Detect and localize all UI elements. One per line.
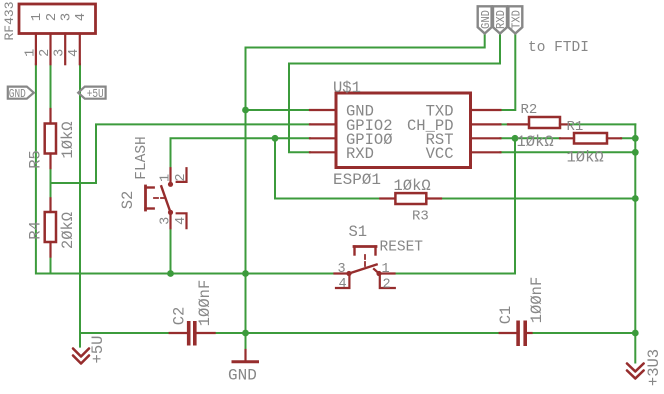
switch S1 RESET (335, 247, 395, 289)
svg-text:1: 1 (382, 262, 390, 277)
svg-text:1ØØnF: 1ØØnF (196, 280, 214, 327)
svg-text:RXD: RXD (346, 145, 374, 163)
wire bottom row C2 to C1 (215, 332, 500, 334)
wire R4 bottom to GND row (50, 257, 52, 274)
svg-text:C2: C2 (171, 307, 189, 326)
svg-text:FLASH: FLASH (134, 136, 150, 180)
flag GND left (8, 87, 34, 99)
svg-text:S1: S1 (349, 223, 368, 241)
resistor R5 (45, 109, 56, 168)
wire +3V3 rail vertical (634, 124, 636, 362)
flag +5V left (78, 87, 105, 99)
resistor R3 (380, 193, 441, 204)
wire R1 right to rail (621, 137, 635, 139)
svg-text:R2: R2 (521, 102, 538, 118)
svg-text:RESET: RESET (380, 240, 424, 256)
wire net TXD from top flag to ESP TXD pin (500, 34, 515, 111)
wire R2 right to +3V3 rail (569, 123, 636, 125)
svg-text:1ØkΩ: 1ØkΩ (517, 133, 554, 151)
wire RF433 pin4 +5V column down to +5V arrow (79, 64, 81, 346)
svg-text:TXD: TXD (510, 10, 523, 29)
svg-text:+5U: +5U (87, 87, 104, 101)
svg-text:2: 2 (38, 49, 53, 57)
resistor R4 (45, 198, 56, 256)
svg-text:+3U3: +3U3 (645, 349, 663, 386)
wire GPIO0 drop down to R3 row (275, 138, 380, 198)
svg-text:1: 1 (29, 13, 45, 21)
svg-text:4: 4 (174, 217, 189, 225)
flag GND top (to FTDI) (478, 6, 492, 33)
wire RF433 pin1 column down to bottom GND row (36, 64, 335, 273)
svg-text:R4: R4 (27, 221, 45, 240)
svg-text:to FTDI: to FTDI (528, 40, 589, 56)
svg-text:1ØkΩ: 1ØkΩ (59, 121, 77, 158)
capacitor C2 (170, 321, 215, 346)
junction RST net at drop (512, 135, 519, 142)
svg-text:U$1: U$1 (333, 79, 361, 97)
svg-text:2ØkΩ: 2ØkΩ (59, 212, 77, 249)
svg-text:1ØØnF: 1ØØnF (528, 277, 546, 324)
junction R3 row at rail (632, 195, 639, 202)
svg-text:GND: GND (228, 367, 257, 385)
wire net RXD from top flag to ESP RXD pin (289, 34, 500, 153)
svg-text:1: 1 (23, 49, 38, 57)
svg-text:1: 1 (159, 174, 174, 182)
junction GND vertical at GND row (242, 270, 249, 277)
junction bottom row at GND vertical (242, 330, 249, 337)
flag RXD top (493, 6, 507, 33)
wire VCC row to rail (500, 151, 635, 153)
junction VCC at rail (632, 149, 639, 156)
svg-text:3: 3 (159, 217, 174, 225)
svg-text:1ØkΩ: 1ØkΩ (394, 177, 431, 195)
junction GPIO0 net at R3 drop (272, 135, 279, 142)
svg-text:+5U: +5U (89, 336, 107, 364)
svg-text:3: 3 (59, 13, 75, 21)
svg-text:ESPØ1: ESPØ1 (333, 171, 381, 189)
flag TXD top (508, 6, 522, 33)
svg-text:RXD: RXD (495, 10, 508, 29)
svg-text:GND: GND (480, 10, 493, 29)
ground symbol GND (233, 350, 258, 362)
wire CH_PD short to R2 (500, 123, 508, 125)
svg-text:GND: GND (9, 87, 26, 101)
svg-text:4: 4 (67, 49, 82, 57)
wire GPIO0 net from S2 to ESP GPIO0 pin (171, 138, 311, 168)
resistor R1 (560, 133, 621, 144)
switch S2 FLASH (146, 168, 187, 228)
svg-text:R1: R1 (567, 119, 584, 135)
wire GND branch to ESP GND pin (246, 109, 311, 111)
svg-text:RF433: RF433 (2, 1, 17, 40)
svg-text:2: 2 (44, 13, 60, 21)
wire GPIO2 net from divider tap to ESP GPIO2 pin (51, 124, 311, 183)
svg-text:S2: S2 (119, 191, 137, 210)
junction S2 pin3 at GND row (167, 270, 174, 277)
wire RF433 pin2 to R5 top (50, 64, 52, 109)
wire R3 right to rail (441, 198, 635, 200)
wire S1 pin1 to RST drop (395, 138, 516, 273)
wire +5V bottom row from corner to C2 (80, 332, 170, 334)
svg-text:R5: R5 (27, 150, 45, 169)
junction GND at ESP GND row (242, 107, 249, 114)
junction R1 at rail (632, 135, 639, 142)
capacitor C1 (500, 321, 532, 347)
svg-text:2: 2 (383, 278, 391, 293)
wire RST row ESP to R1 (500, 137, 560, 139)
svg-text:4: 4 (339, 277, 347, 292)
IC U$1 ESP01 (310, 93, 500, 168)
connector RF433 (19, 4, 96, 64)
resistor R2 (508, 117, 569, 128)
wire GND row from GND vertical to S1 pin3 (246, 273, 335, 275)
wire S2 pin3 down to GND row (170, 228, 172, 273)
supply arrow +3V3 (627, 364, 644, 379)
svg-text:3: 3 (53, 49, 68, 57)
svg-text:C1: C1 (497, 306, 515, 325)
svg-text:R3: R3 (412, 209, 429, 225)
svg-text:2: 2 (174, 173, 189, 181)
svg-text:1ØkΩ: 1ØkΩ (567, 149, 604, 167)
wire R5 bottom to R4 top (50, 168, 52, 198)
svg-text:VCC: VCC (426, 145, 454, 163)
svg-text:4: 4 (73, 13, 89, 21)
supply arrow +5V (73, 349, 89, 364)
wire net GND vertical from top flag to ground symbol (246, 34, 485, 351)
svg-text:3: 3 (338, 262, 346, 277)
junction bottom row at rail (632, 330, 639, 337)
wire bottom row C1 to rail (532, 332, 636, 334)
